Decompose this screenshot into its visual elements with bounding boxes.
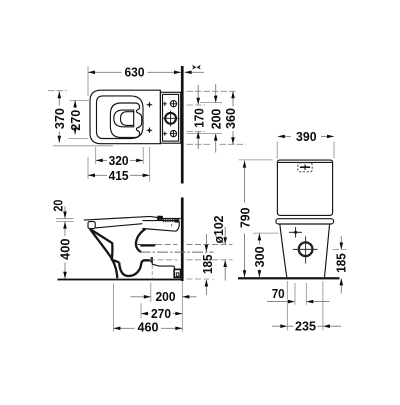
svg-text:ø102: ø102 [211,216,226,244]
svg-text:630: 630 [125,64,145,79]
svg-text:300: 300 [252,246,267,267]
svg-text:170: 170 [192,108,207,128]
svg-text:390: 390 [296,129,317,144]
svg-text:790: 790 [237,208,252,229]
svg-text:370: 370 [52,108,67,129]
svg-text:235: 235 [295,319,316,334]
svg-text:185: 185 [333,253,348,273]
svg-text:320: 320 [109,153,129,168]
svg-text:185: 185 [200,254,215,274]
svg-text:360: 360 [223,108,238,129]
svg-text:460: 460 [138,320,159,335]
svg-text:400: 400 [58,238,73,260]
svg-text:200: 200 [156,289,176,304]
svg-text:270: 270 [68,110,83,131]
svg-text:20: 20 [50,200,65,212]
svg-text:415: 415 [109,168,129,183]
svg-text:70: 70 [272,286,285,301]
svg-text:200: 200 [208,109,223,130]
